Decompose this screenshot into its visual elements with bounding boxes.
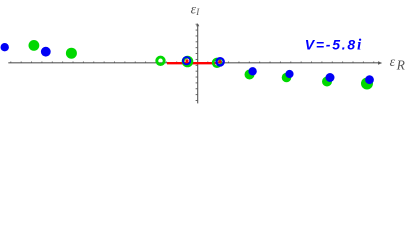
svg-text:R: R [396, 57, 406, 72]
svg-text:ε: ε [390, 55, 396, 70]
svg-text:V=-5.8i: V=-5.8i [305, 36, 363, 53]
